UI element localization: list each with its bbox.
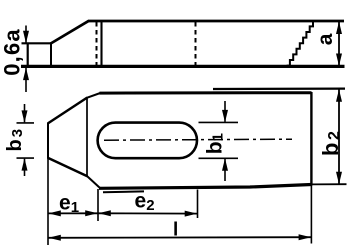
top view nose top chamfer xyxy=(48,98,88,124)
side view hidden slot start (dashed) xyxy=(96,22,98,66)
side view top edge with extension to a-dimension xyxy=(88,20,344,23)
top view bottom edge xyxy=(99,185,312,189)
side view hidden slot end (dashed) xyxy=(195,22,197,66)
svg-text:0,6a: 0,6a xyxy=(0,28,25,76)
dimension b1 line and arrows xyxy=(224,101,226,122)
top view top ghost line / b2 extension xyxy=(213,87,345,90)
side view ramp edge xyxy=(51,21,89,44)
extension line slot end (for e2) xyxy=(197,190,199,219)
slot (obround) xyxy=(98,123,197,159)
top view nose bottom chamfer xyxy=(48,158,88,176)
svg-text:l: l xyxy=(173,220,178,241)
top view ramp crest edge xyxy=(86,98,88,177)
dimension b1 extension lines xyxy=(199,121,239,123)
dimension a line and arrows xyxy=(338,22,340,67)
extension line left end (for e1 and l) xyxy=(47,159,49,246)
side view serrated end (steps) xyxy=(287,21,313,66)
svg-text:a: a xyxy=(314,33,337,45)
top view nose top corner bevel xyxy=(87,93,101,98)
dimension e1 line and arrows xyxy=(48,212,98,214)
top view b2 bottom extension xyxy=(311,183,347,185)
top view right edge xyxy=(310,92,312,186)
side view bottom edge with extensions both sides xyxy=(21,65,345,68)
top view top edge xyxy=(100,91,312,94)
side view left end top edge (0,6a height) xyxy=(22,42,52,44)
top view nose bottom corner bevel xyxy=(87,176,100,188)
dimension l line and arrows xyxy=(48,236,311,239)
extension line right end (for l) xyxy=(310,186,312,244)
top view left edge (b3) xyxy=(47,123,49,159)
side view chamfer edge (solid) xyxy=(100,22,102,67)
slot center line (dash-dot) xyxy=(104,139,292,140)
side view heel vertical edge xyxy=(50,43,52,66)
dimension b3 extension lines xyxy=(17,122,35,124)
dimension 0,6a line and arrows xyxy=(25,26,27,43)
dimension b3 line and arrows xyxy=(24,104,26,122)
dimension e2 line and arrows xyxy=(98,212,198,214)
top view bottom ghost line xyxy=(103,190,144,193)
dimension b2 line and arrows xyxy=(338,89,340,184)
side view left end left edge xyxy=(27,43,29,67)
extension line slot start (for e1/e2) xyxy=(97,189,99,221)
